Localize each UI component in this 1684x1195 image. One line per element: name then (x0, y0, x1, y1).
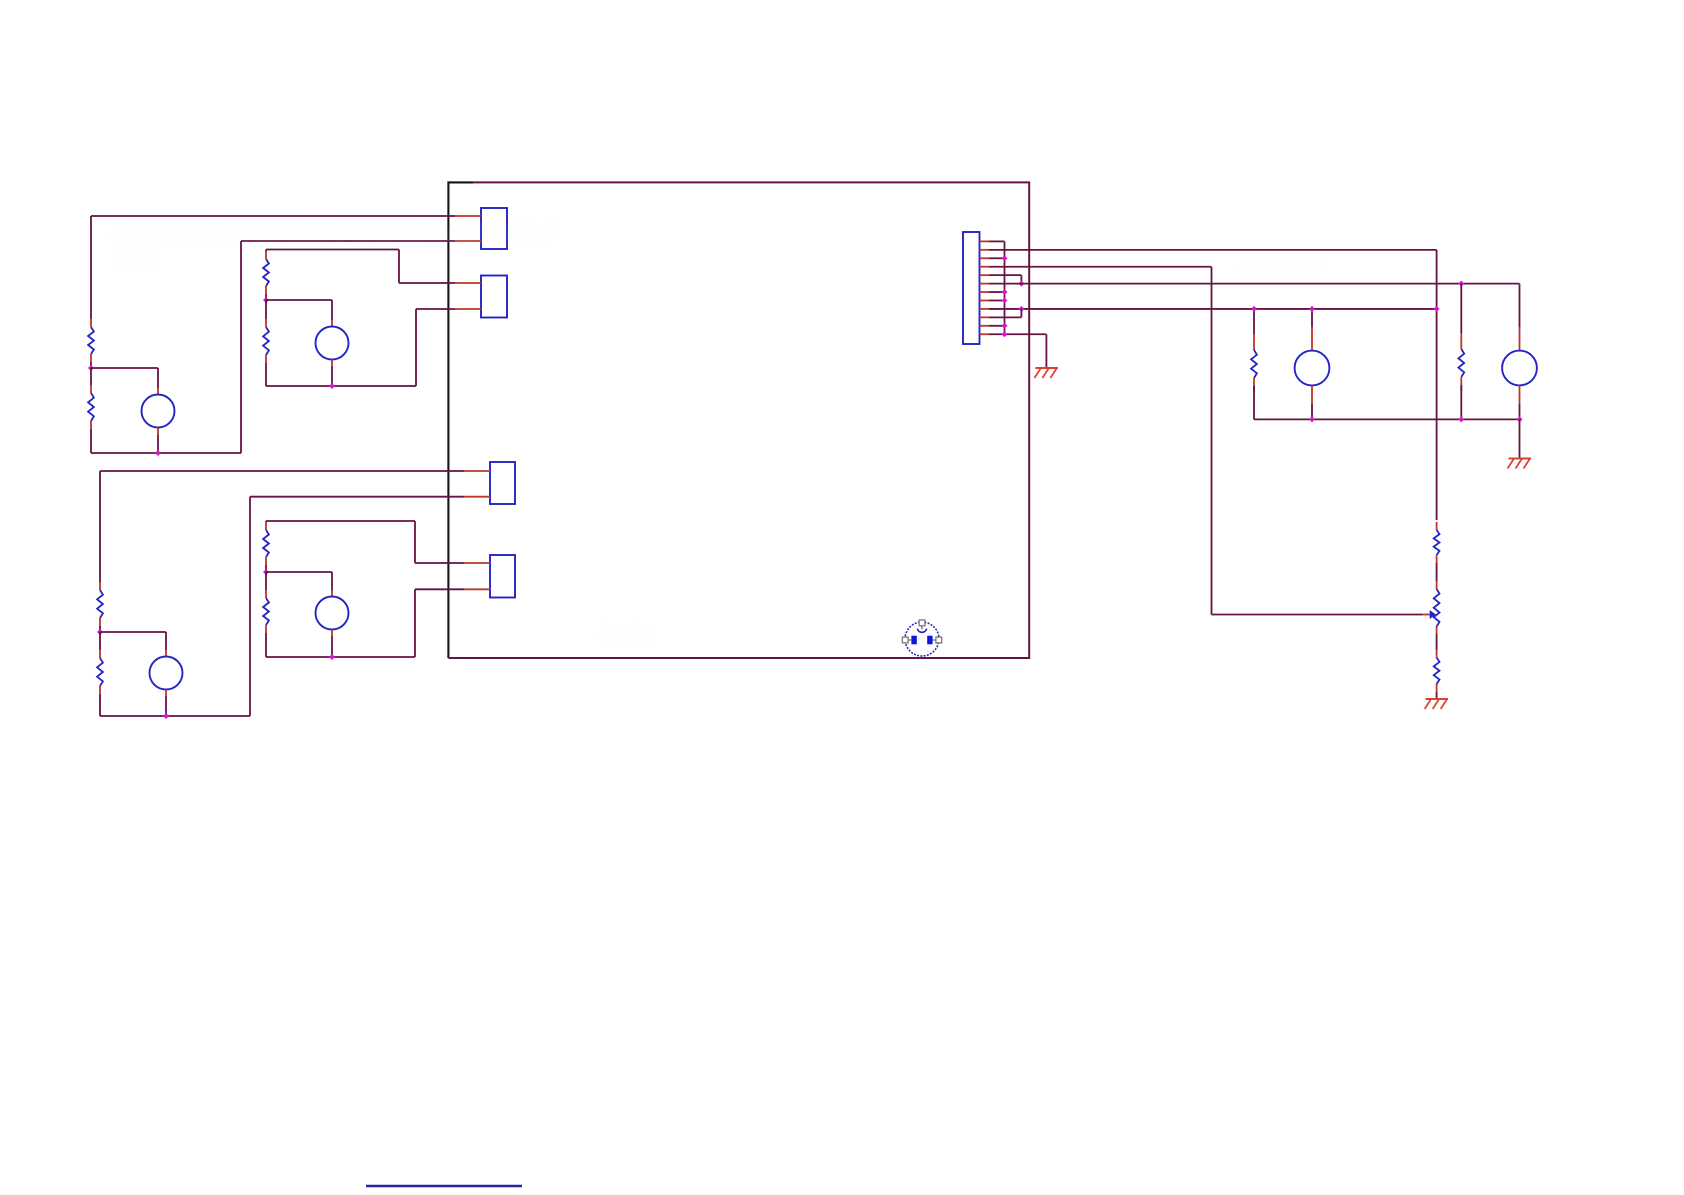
connector J3 (490, 462, 515, 504)
wire block1 right vertical (240, 241, 242, 453)
potentiometer R8 bottom lead (1436, 627, 1438, 635)
wire R7 to pot (1436, 563, 1438, 581)
svg-text:HLSLaLeVaLaLtVtLtLaLtdLtLeLd: HLSLaLeVaLaLtVtLtLaLtdLtLeLd (113, 217, 554, 250)
node R6 tap (1458, 281, 1464, 287)
node bus-7 (1002, 289, 1008, 295)
wire block2 step down (398, 250, 400, 284)
connector J1 (481, 208, 507, 249)
resistor R4 (263, 319, 269, 363)
pin J3-1 (464, 470, 490, 472)
wire block4 top (266, 520, 415, 522)
wire R4 top (265, 300, 267, 319)
lamp L4 (316, 597, 349, 630)
resistor R3 (263, 251, 269, 294)
pot wiper red lead (1423, 614, 1430, 616)
control board outline (purple part) (448, 182, 1029, 658)
node M2 bottom junction (1517, 416, 1523, 422)
wire pin11 to bus (989, 325, 1005, 327)
wire block4 to J4-1 (415, 562, 464, 564)
potentiometer R8 body (1434, 589, 1440, 627)
lamp L2 bottom lead (331, 360, 333, 367)
pin J5-8 (980, 299, 990, 301)
node bus-12 (1002, 331, 1008, 337)
wire block1 to J1-2 (241, 240, 455, 242)
lamp L3 (150, 657, 183, 690)
wire block1 bottom left (90, 429, 92, 453)
wire M1 top (1311, 309, 1313, 327)
pin J5-10 (980, 316, 990, 318)
pin J5-2 (980, 249, 990, 251)
node pin2-pin9 join (1434, 306, 1440, 312)
wire net3 top (100, 470, 464, 472)
pin J1-1 (455, 215, 481, 217)
pin J5-7 (980, 291, 990, 293)
node C junction (263, 297, 269, 303)
mains plug P1 (902, 620, 941, 656)
wire pin6 long (989, 283, 1520, 285)
pin J3-2 (464, 496, 490, 498)
wire net1 top (91, 215, 455, 217)
wire R5 bottom (1253, 386, 1255, 419)
ground G2 (1508, 459, 1532, 469)
wire pin5 (989, 275, 1021, 283)
wire block3 bottom (100, 715, 250, 717)
wire block2 right vertical (415, 309, 417, 386)
node pin9-10 junction (1018, 306, 1024, 312)
wire L1 to bottom (157, 435, 159, 453)
resistor R13 (263, 590, 269, 633)
motor M2 (1502, 351, 1537, 386)
ground G1 (1034, 368, 1058, 378)
node R6 bottom junction (1458, 416, 1464, 422)
pin J5-6 (980, 283, 990, 285)
wire M1 bottom (1311, 404, 1313, 419)
pin J2-1 (455, 282, 481, 284)
node H junction (329, 654, 335, 660)
pin J5-3 (980, 257, 990, 259)
pin J5-12 (980, 333, 990, 335)
wire R13 bottom (265, 633, 267, 657)
wire bus vertical (1004, 241, 1006, 334)
motor M1 top lead (1311, 327, 1313, 351)
connector J5 body (963, 232, 980, 344)
wire block3 to J3-2 (250, 496, 464, 498)
pin J5-5 (980, 274, 990, 276)
svg-text:LaVa: LaVa (600, 620, 651, 645)
node M1 bottom junction (1309, 416, 1315, 422)
pin J4-1 (464, 562, 490, 564)
wire block4 to J4-2 (415, 588, 464, 590)
pin J5-9 (980, 308, 990, 310)
wire right bottom rail (1254, 418, 1520, 420)
watermark (113, 217, 1322, 645)
motor M1 bottom lead (1311, 385, 1313, 404)
wire to ground G2 (1519, 419, 1521, 457)
node bus-8 (1002, 297, 1008, 303)
wire pin4 vertical down (1211, 267, 1213, 615)
resistor R9 (1434, 650, 1440, 693)
wire pin12 to ground (989, 334, 1046, 367)
wire R5 top (1253, 309, 1255, 334)
lamp L2 top lead (331, 320, 333, 327)
pin J5-4 (980, 266, 990, 268)
wire R3 to junction (265, 294, 267, 300)
motor M1 (1295, 351, 1330, 386)
wire L3 to bottom (165, 696, 167, 716)
pin J4-2 (464, 588, 490, 590)
title block line (366, 1185, 522, 1188)
resistor R11 (97, 650, 103, 694)
node bus-11 (1002, 323, 1008, 329)
wire block4 step down (414, 521, 416, 563)
wire R11 bottom (99, 694, 101, 716)
motor M2 bottom lead (1519, 385, 1521, 404)
wire block2 bottom (266, 385, 416, 387)
node F junction (163, 713, 169, 719)
wire junction to lamp L1 (91, 368, 158, 388)
wire L2 to bottom (331, 366, 333, 386)
lamp L3 bottom lead (165, 690, 167, 697)
svg-text:SLd: SLd (118, 249, 154, 271)
connector J2 (481, 276, 507, 318)
node A junction (88, 365, 94, 371)
control board outline (black part) (448, 182, 473, 658)
resistor R6 (1458, 333, 1464, 391)
node G junction (263, 569, 269, 575)
wire block1 bottom (91, 452, 241, 454)
wire R6 bottom (1460, 385, 1462, 419)
resistor R1 (88, 319, 94, 362)
resistor R2 (88, 385, 94, 429)
potentiometer R8 top lead (1436, 581, 1438, 589)
wire pin9 long (989, 308, 1437, 310)
wire block4 left top (265, 521, 267, 522)
wire net1 left vertical upper (90, 216, 92, 319)
pin J5-11 (980, 325, 990, 327)
node bus-3 (1002, 255, 1008, 261)
pin J1-2 (455, 240, 481, 242)
resistor R5 (1251, 334, 1257, 392)
node M1 tap (1309, 306, 1315, 312)
wire M2 bottom (1519, 404, 1521, 419)
wire pin4 long (989, 266, 1212, 268)
wire pin3 to bus (989, 257, 1005, 259)
node B junction (155, 450, 161, 456)
wire block2 to J2-1 (399, 282, 455, 284)
wire block4 bottom (266, 656, 415, 658)
wire block2 left top (265, 250, 267, 252)
wire pin6 corner down (1519, 284, 1521, 327)
lamp L3 top lead (165, 650, 167, 657)
resistor R7 (1434, 522, 1440, 563)
pin J5-1 (980, 240, 990, 242)
lamp L1 top lead (157, 388, 159, 395)
lamp L2 (316, 327, 349, 360)
svg-text:LaVaLtd: LaVaLtd (1240, 252, 1322, 277)
node E junction (97, 629, 103, 635)
wire block2 top (266, 249, 399, 251)
wire block3 left vertical upper (99, 471, 101, 582)
node R5 tap (1251, 306, 1257, 312)
lamp L1 bottom lead (157, 428, 159, 436)
motor M2 top lead (1519, 327, 1521, 351)
wire block3 right vertical (249, 497, 251, 716)
wire junction to lamp L2 (266, 300, 332, 320)
wire pot wiper horizontal (1212, 614, 1423, 616)
wire R6 vertical (1460, 284, 1462, 333)
node pin5-6 junction (1018, 281, 1024, 287)
wire junction to lamp L3 (100, 632, 166, 650)
wire pin1 to bus (989, 240, 1005, 242)
resistor R10 (97, 582, 103, 626)
wire pin8 to bus (989, 299, 1005, 301)
ground G3 (1425, 699, 1449, 709)
wire block2 to J2-2 (416, 308, 455, 310)
lamp L4 top lead (331, 590, 333, 597)
pot wiper arrow (1430, 610, 1436, 619)
wire R13 top (265, 572, 267, 590)
lamp L4 bottom lead (331, 630, 333, 637)
wire R2 top (90, 368, 92, 385)
wire R11 top (99, 632, 101, 650)
wire pin7 to bus (989, 291, 1005, 293)
wire pin10 (989, 309, 1021, 317)
lamp L1 (142, 395, 175, 428)
resistor R12 (263, 522, 269, 565)
wire junction to lamp L4 (266, 572, 332, 590)
wire L4 to bottom (331, 636, 333, 657)
wire block4 right vertical (414, 589, 416, 657)
wire pin2 long (989, 249, 1437, 251)
wire R12 to junction (265, 565, 267, 572)
pin J2-2 (455, 308, 481, 310)
wire pin2 vertical down (1436, 250, 1438, 520)
wire R10 to junction (99, 626, 101, 632)
wire R1 to junction (90, 362, 92, 368)
wire R4 bottom (265, 363, 267, 386)
connector J4 (490, 555, 515, 598)
node D junction (329, 383, 335, 389)
wire R9 to ground (1436, 692, 1438, 698)
wire pot to R9 (1436, 634, 1438, 650)
